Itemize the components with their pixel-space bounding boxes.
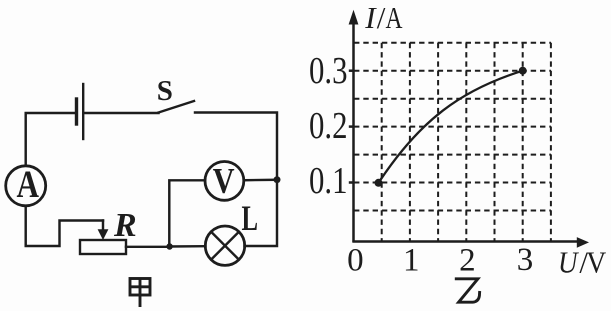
svg-text:R: R [113, 207, 137, 244]
svg-text:U: U [558, 245, 580, 280]
svg-text:S: S [157, 75, 173, 107]
svg-text:0.1: 0.1 [309, 160, 348, 202]
svg-text:A: A [17, 162, 40, 206]
svg-text:3: 3 [517, 242, 534, 278]
svg-text:A: A [386, 0, 403, 35]
svg-text:1: 1 [403, 242, 420, 278]
svg-text:L: L [242, 198, 259, 238]
svg-text:/: / [377, 0, 386, 35]
svg-text:0.3: 0.3 [309, 50, 348, 92]
svg-text:I: I [364, 0, 377, 35]
svg-text:V: V [586, 245, 607, 280]
svg-text:0: 0 [347, 242, 364, 278]
svg-text:V: V [213, 160, 235, 200]
svg-text:2: 2 [459, 242, 476, 278]
svg-text:0.2: 0.2 [309, 105, 348, 147]
